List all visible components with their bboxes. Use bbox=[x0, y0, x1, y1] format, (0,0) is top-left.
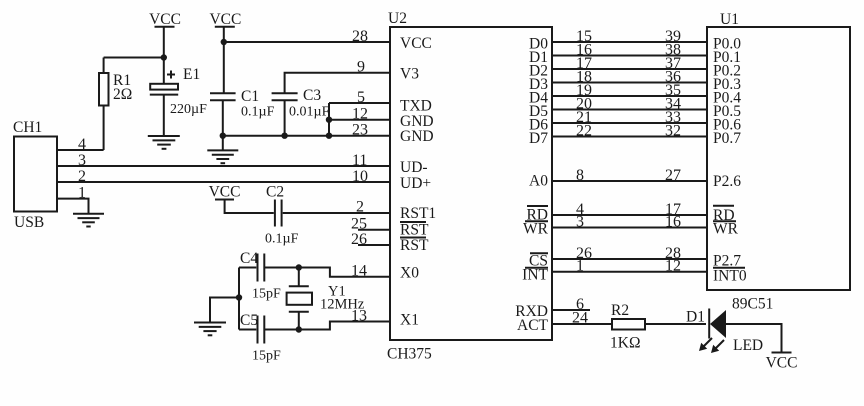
svg-text:C2: C2 bbox=[266, 184, 284, 201]
wire INT to INT0 bbox=[552, 271, 707, 273]
capacitor C4 15pF bbox=[239, 250, 281, 302]
wire R2 to D1 bbox=[645, 323, 706, 325]
svg-text:22: 22 bbox=[576, 123, 592, 140]
node VCC/pin28 junction bbox=[221, 39, 227, 45]
U2 pin name WR overline bbox=[523, 221, 549, 238]
svg-text:1: 1 bbox=[576, 258, 584, 275]
svg-text:RST: RST bbox=[400, 237, 429, 254]
svg-text:UD+: UD+ bbox=[400, 175, 431, 192]
svg-text:0.1µF: 0.1µF bbox=[265, 232, 299, 247]
svg-text:1: 1 bbox=[78, 185, 86, 202]
capacitor C1 0.1uF bbox=[210, 88, 275, 150]
svg-text:P0.7: P0.7 bbox=[713, 130, 741, 147]
svg-text:1KΩ: 1KΩ bbox=[610, 335, 640, 352]
svg-text:U1: U1 bbox=[720, 11, 739, 28]
connector CH1 (USB) bbox=[13, 119, 57, 231]
svg-text:X0: X0 bbox=[400, 265, 419, 282]
wire bus D2 bbox=[552, 68, 707, 70]
svg-text:2Ω: 2Ω bbox=[113, 86, 132, 103]
wire U2 pin 12 (GND) bbox=[329, 119, 390, 121]
LED arrow 1 bbox=[699, 338, 712, 351]
svg-text:12: 12 bbox=[352, 106, 368, 123]
IC U1 89C51 bbox=[707, 11, 850, 313]
svg-text:24: 24 bbox=[572, 310, 588, 327]
crystal Y1 12MHz bbox=[287, 268, 365, 330]
wire D1 to VCC bbox=[726, 324, 782, 352]
svg-text:4: 4 bbox=[78, 136, 86, 153]
svg-text:RST: RST bbox=[400, 222, 429, 239]
svg-text:GND: GND bbox=[400, 128, 434, 145]
wire U2 pin 28 (VCC) bbox=[224, 41, 390, 43]
svg-text:CH1: CH1 bbox=[13, 119, 42, 136]
node left vertical ground tap bbox=[236, 294, 242, 300]
svg-text:VCC: VCC bbox=[209, 11, 241, 28]
svg-text:10: 10 bbox=[352, 168, 368, 185]
svg-text:26: 26 bbox=[351, 231, 367, 248]
svg-text:VCC: VCC bbox=[209, 184, 241, 201]
capacitor E1 220uF polarized bbox=[150, 66, 207, 135]
svg-text:11: 11 bbox=[352, 152, 367, 169]
U1 pin name RD overline bbox=[713, 206, 735, 224]
node X1/Y1 junction bbox=[296, 326, 302, 332]
U2 pin name CS overline bbox=[529, 253, 548, 270]
svg-text:C5: C5 bbox=[240, 312, 258, 329]
svg-text:3: 3 bbox=[78, 152, 86, 169]
svg-text:16: 16 bbox=[665, 214, 681, 231]
wire C4/C5 left vertical bbox=[238, 268, 240, 330]
wire CH1 pin 4 to R1 bbox=[57, 149, 104, 151]
wire C2 to U2 pin 2 (RST1) bbox=[283, 212, 390, 214]
resistor R2 1Kohm bbox=[610, 302, 645, 352]
svg-text:14: 14 bbox=[351, 263, 367, 280]
wire U2 pin 9 (V3) to C3 bbox=[285, 73, 390, 93]
svg-text:ACT: ACT bbox=[517, 317, 549, 334]
power VCC (RST branch) bbox=[209, 184, 274, 214]
ground near crystal bbox=[194, 323, 226, 336]
wire CH1 pin 2 to U2 pin 10 (UD+) bbox=[57, 181, 390, 183]
wire bus D0 bbox=[552, 41, 707, 43]
wire A0 to P2.6 bbox=[552, 180, 707, 182]
svg-text:D7: D7 bbox=[529, 130, 548, 147]
svg-text:89C51: 89C51 bbox=[732, 296, 773, 313]
svg-text:2: 2 bbox=[78, 168, 86, 185]
node R1/VCC junction bbox=[161, 54, 167, 60]
wire U2 pin 5 (TXD) bbox=[329, 102, 390, 104]
U1 pin name WR overline bbox=[713, 221, 739, 238]
svg-text:28: 28 bbox=[352, 28, 368, 45]
ground below C1 bbox=[207, 150, 238, 163]
wire WR bus bbox=[552, 227, 707, 229]
svg-text:R2: R2 bbox=[611, 302, 629, 319]
svg-text:0.1µF: 0.1µF bbox=[241, 105, 275, 120]
ground at CH1 pin 1 bbox=[73, 214, 104, 227]
U1 pin name INT0 overline bbox=[713, 268, 747, 285]
wire U2 pin 26 stub bbox=[358, 244, 390, 246]
svg-text:220µF: 220µF bbox=[170, 102, 207, 117]
svg-text:C3: C3 bbox=[303, 87, 321, 104]
svg-text:A0: A0 bbox=[529, 173, 548, 190]
wire bus D5 bbox=[552, 109, 707, 111]
svg-text:0.01µF: 0.01µF bbox=[289, 105, 330, 120]
resistor R1 2ohm bbox=[99, 58, 132, 151]
svg-text:9: 9 bbox=[357, 59, 365, 76]
wire CH1 pin 1 to ground bbox=[57, 199, 89, 213]
svg-text:15pF: 15pF bbox=[252, 349, 281, 364]
svg-text:WR: WR bbox=[523, 221, 549, 238]
power VCC (LED) bbox=[766, 353, 798, 372]
svg-text:VCC: VCC bbox=[149, 11, 181, 28]
svg-text:INT0: INT0 bbox=[713, 268, 747, 285]
svg-text:CH375: CH375 bbox=[387, 346, 432, 363]
node tie/GND rail junction bbox=[326, 133, 332, 139]
svg-text:3: 3 bbox=[576, 214, 584, 231]
wire R1 top to VCC branch bbox=[104, 57, 164, 59]
wire bus D1 bbox=[552, 55, 707, 57]
node X0/Y1 junction bbox=[296, 264, 302, 270]
wire bus D7 bbox=[552, 136, 707, 138]
svg-text:X1: X1 bbox=[400, 312, 419, 329]
IC U2 CH375 bbox=[387, 10, 552, 363]
wire GND net rail to U2 pin 23 bbox=[223, 135, 390, 137]
svg-text:C4: C4 bbox=[240, 250, 258, 267]
LED arrow 2 bbox=[711, 340, 724, 353]
svg-text:VCC: VCC bbox=[400, 35, 432, 52]
svg-text:INT: INT bbox=[522, 267, 548, 284]
wire RD bus bbox=[552, 214, 707, 216]
svg-text:V3: V3 bbox=[400, 66, 419, 83]
power VCC (E1 branch) bbox=[149, 11, 181, 84]
svg-text:E1: E1 bbox=[183, 66, 200, 83]
svg-text:TXD: TXD bbox=[400, 98, 432, 115]
wire X1 net C5/Y1 to U2 pin 13 bbox=[265, 322, 391, 330]
wire CS to P2.7 bbox=[552, 258, 707, 260]
svg-text:D1: D1 bbox=[686, 309, 705, 326]
wire bus D6 bbox=[552, 122, 707, 124]
LED D1 bbox=[686, 309, 763, 355]
svg-text:C1: C1 bbox=[241, 88, 259, 105]
capacitor C5 15pF bbox=[239, 312, 281, 364]
wire bus D3 bbox=[552, 82, 707, 84]
capacitor C3 0.01uF bbox=[272, 87, 330, 136]
svg-text:8: 8 bbox=[576, 167, 584, 184]
wire TXD/GND tie vertical bbox=[328, 103, 330, 136]
svg-text:23: 23 bbox=[352, 122, 368, 139]
svg-text:U2: U2 bbox=[388, 10, 407, 27]
svg-text:2: 2 bbox=[356, 199, 364, 216]
svg-text:12MHz: 12MHz bbox=[320, 297, 365, 313]
U2 pin name RST 25 overline bbox=[400, 222, 429, 239]
svg-text:UD-: UD- bbox=[400, 159, 428, 176]
svg-text:RST1: RST1 bbox=[400, 205, 436, 222]
svg-text:32: 32 bbox=[665, 123, 681, 140]
svg-text:5: 5 bbox=[357, 89, 365, 106]
svg-text:USB: USB bbox=[14, 214, 44, 231]
svg-text:25: 25 bbox=[351, 216, 367, 233]
capacitor C2 0.1uF bbox=[265, 184, 299, 247]
U2 pin name RST 26 overline bbox=[400, 237, 429, 254]
node tie/pin12 junction bbox=[326, 117, 332, 123]
ground below E1 bbox=[148, 136, 180, 149]
wire bus D4 bbox=[552, 95, 707, 97]
power VCC (C1 / pin 28 branch) bbox=[209, 11, 241, 93]
node C1/GND rail junction bbox=[220, 133, 226, 139]
node C3/GND rail junction bbox=[281, 133, 287, 139]
svg-text:15pF: 15pF bbox=[252, 287, 281, 302]
wire ground tap bbox=[210, 298, 239, 323]
svg-text:LED: LED bbox=[733, 337, 763, 354]
svg-text:WR: WR bbox=[713, 221, 739, 238]
wire ACT to R2 bbox=[552, 323, 612, 325]
wire CH1 pin 3 to U2 pin 11 (UD-) bbox=[57, 165, 390, 167]
svg-text:P2.6: P2.6 bbox=[713, 173, 741, 190]
svg-text:27: 27 bbox=[665, 167, 681, 184]
U2 pin name INT overline bbox=[522, 267, 548, 284]
wire U2 pin 6 RXD stub bbox=[552, 309, 590, 311]
U2 pin name RD overline bbox=[526, 206, 548, 224]
wire U2 pin 25 stub bbox=[358, 229, 390, 231]
svg-text:12: 12 bbox=[665, 258, 681, 275]
wire X0 net C4/Y1 to U2 pin 14 bbox=[265, 268, 391, 277]
svg-text:VCC: VCC bbox=[766, 355, 798, 372]
